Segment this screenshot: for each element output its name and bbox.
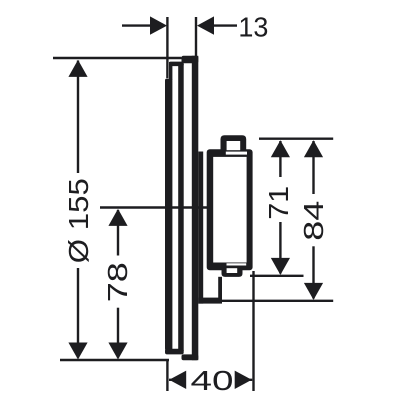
svg-text:40: 40 (191, 365, 234, 396)
svg-text:13: 13 (238, 12, 268, 43)
svg-text:84: 84 (298, 201, 329, 241)
svg-text:71: 71 (263, 186, 294, 220)
svg-text:Ø 155: Ø 155 (63, 178, 94, 263)
svg-text:78: 78 (102, 262, 133, 302)
